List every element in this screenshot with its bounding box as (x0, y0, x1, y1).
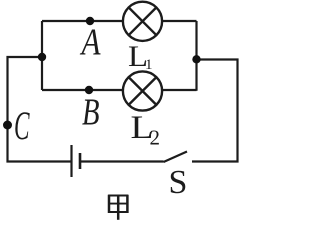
svg-text:1: 1 (145, 57, 153, 73)
svg-text:S: S (169, 164, 188, 201)
svg-text:2: 2 (150, 126, 161, 150)
svg-text:C: C (14, 103, 30, 148)
svg-text:B: B (82, 92, 100, 134)
svg-text:A: A (79, 22, 101, 64)
